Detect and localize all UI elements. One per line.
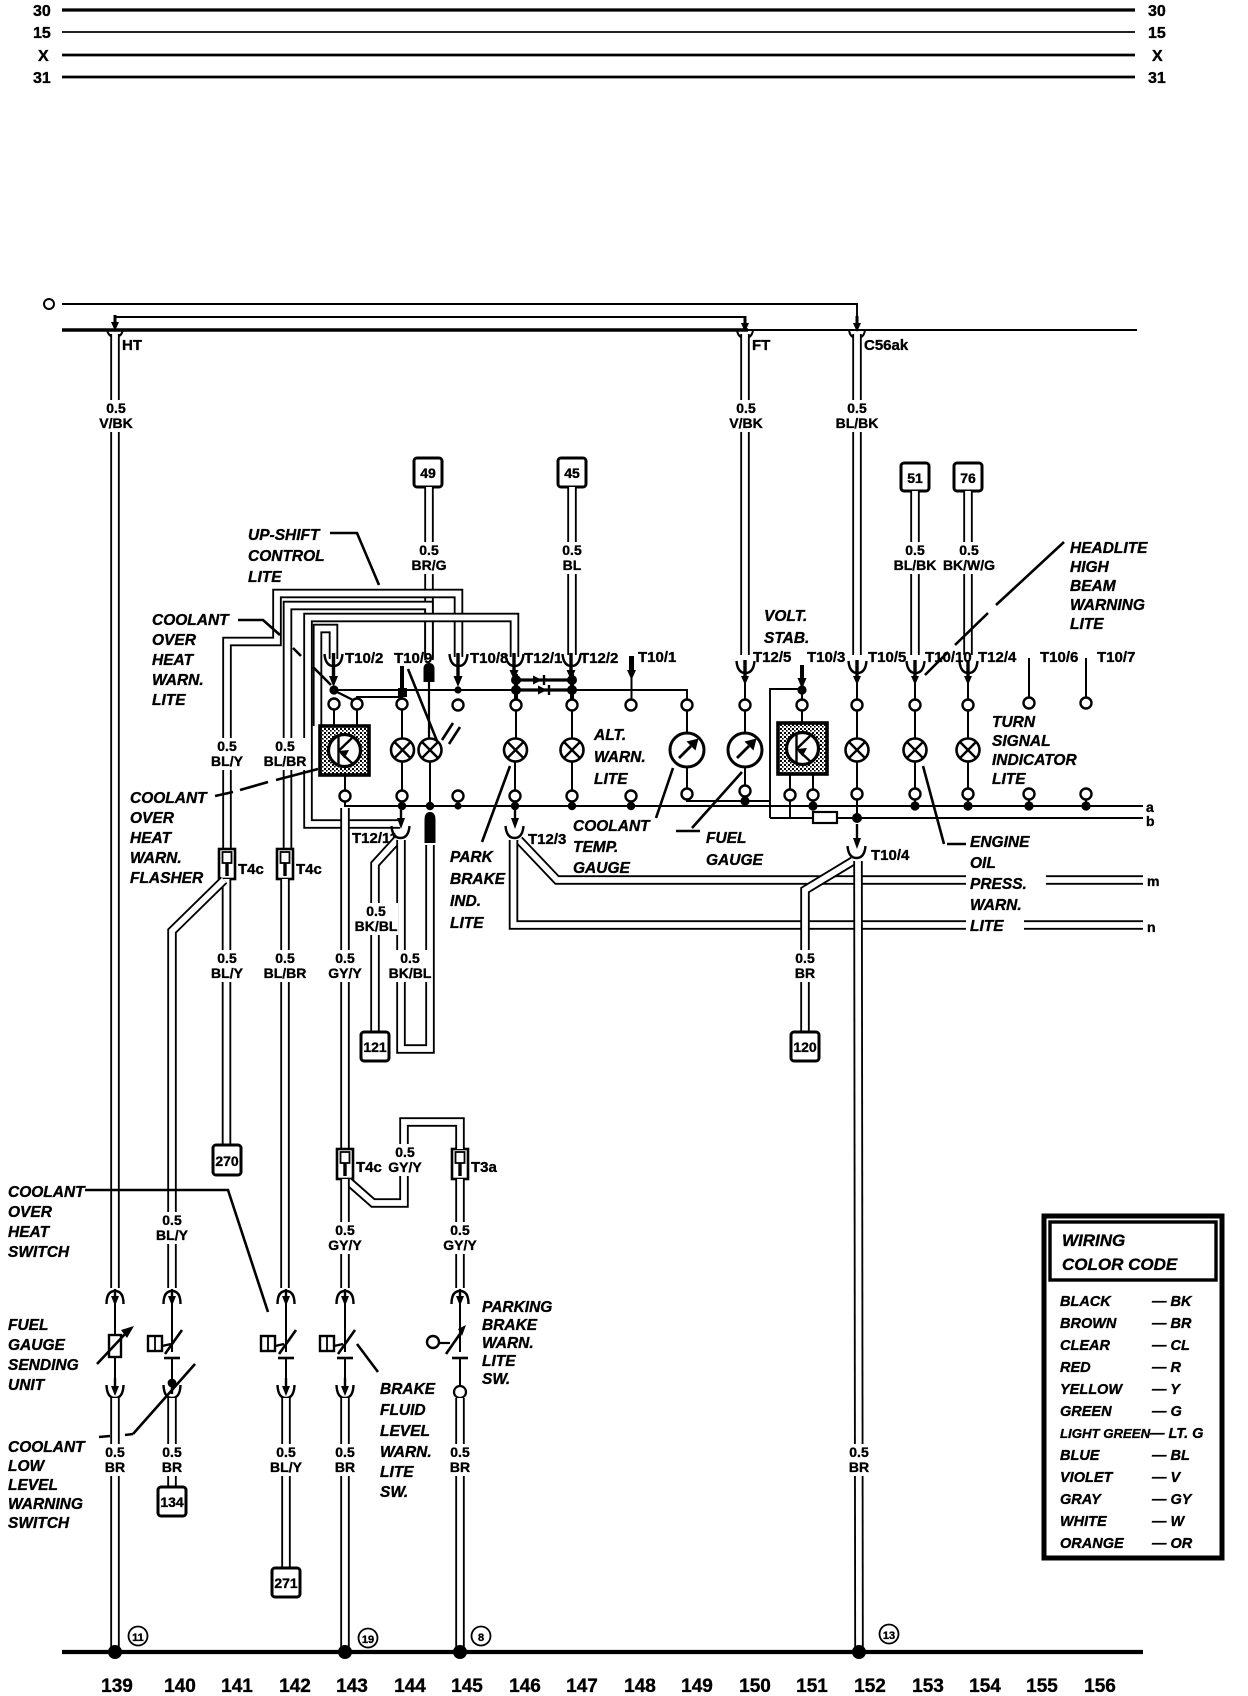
wire n from T12/3	[514, 840, 1144, 925]
wire label 0.5 GY/Y col460	[440, 1222, 481, 1254]
pointer coolant overheat flasher	[215, 769, 318, 796]
connector T12/1 cup	[506, 653, 524, 680]
pointer park brake ind lite	[482, 766, 510, 842]
connector box 134	[158, 1487, 186, 1516]
svg-text:OVER: OVER	[8, 1204, 53, 1221]
svg-text:LITE: LITE	[482, 1353, 516, 1370]
label coolant overheat flasher	[130, 790, 208, 887]
wire T10/9 stub	[400, 666, 404, 703]
bus 31	[62, 76, 1135, 79]
svg-text:— BK: — BK	[1151, 1294, 1193, 1310]
wire C56ak column BL/BK down to T10/5	[852, 334, 862, 655]
label T10/1	[638, 649, 676, 666]
svg-text:0.5: 0.5	[217, 950, 237, 966]
svg-text:V/BK: V/BK	[729, 415, 762, 431]
svg-text:— OR: — OR	[1151, 1536, 1193, 1552]
lamp upshift control	[419, 739, 442, 806]
label T10/5	[868, 649, 906, 666]
connector T10/4 cup	[848, 846, 866, 858]
wire T10/3 stub and link	[770, 665, 807, 818]
svg-text:149: 149	[681, 1676, 713, 1696]
wire T12/11 to box 121	[375, 840, 397, 1032]
svg-text:0.5: 0.5	[105, 1444, 125, 1460]
cluster bottom pins	[340, 786, 1092, 802]
svg-text:LITE: LITE	[594, 771, 628, 788]
svg-text:0.5: 0.5	[335, 1444, 355, 1460]
svg-text:143: 143	[336, 1676, 368, 1696]
arrow into T12/11	[397, 810, 405, 829]
svg-text:SW.: SW.	[380, 1484, 408, 1501]
svg-text:HEAT: HEAT	[152, 652, 195, 669]
svg-text:GAUGE: GAUGE	[706, 852, 764, 869]
wire label 0.5 BR col172	[155, 1444, 189, 1476]
svg-text:T3a: T3a	[471, 1159, 498, 1176]
resistor on rail b	[813, 812, 837, 823]
wire col2 BR to box 134	[167, 1398, 177, 1487]
svg-text:148: 148	[624, 1676, 656, 1696]
label T10/8	[470, 650, 508, 667]
ground id 19	[359, 1629, 378, 1648]
wire 45 BL down to T12/2	[567, 487, 577, 655]
svg-text:PARKING: PARKING	[482, 1299, 552, 1316]
svg-text:BK/BL: BK/BL	[389, 965, 432, 981]
svg-text:WARNING: WARNING	[1070, 597, 1145, 614]
svg-text:COOLANT: COOLANT	[130, 790, 208, 807]
pointer fuel gauge	[676, 772, 742, 831]
parking brake switch	[427, 1303, 468, 1386]
svg-text:BL/Y: BL/Y	[211, 965, 244, 981]
wire main horizontal thin segment	[748, 329, 1137, 331]
svg-text:153: 153	[912, 1676, 944, 1696]
ground id 8	[472, 1627, 491, 1646]
connector circle col5	[454, 1386, 466, 1398]
pointer headlite	[925, 542, 1064, 675]
svg-text:OIL: OIL	[970, 855, 996, 872]
voltstab box	[778, 723, 827, 774]
pointer coolant temp gauge	[656, 768, 673, 818]
svg-text:0.5: 0.5	[419, 542, 439, 558]
label T12/2	[580, 650, 618, 667]
wire T10/1 stub arrow	[627, 656, 636, 701]
svg-text:LOW: LOW	[8, 1458, 46, 1475]
svg-text:YELLOW: YELLOW	[1060, 1382, 1123, 1398]
svg-text:BR: BR	[849, 1459, 869, 1475]
svg-text:COOLANT: COOLANT	[573, 818, 651, 835]
svg-text:0.5: 0.5	[847, 400, 867, 416]
svg-text:SW.: SW.	[482, 1371, 510, 1388]
svg-text:— R: — R	[1151, 1360, 1182, 1376]
svg-text:WIRING: WIRING	[1062, 1231, 1125, 1250]
svg-text:COLOR CODE: COLOR CODE	[1062, 1255, 1178, 1274]
svg-text:WARNING: WARNING	[8, 1496, 83, 1513]
svg-text:CONTROL: CONTROL	[248, 548, 325, 565]
wire jumper rail to pin 357	[357, 697, 402, 699]
svg-text:VIOLET: VIOLET	[1060, 1470, 1114, 1486]
rail label b	[1146, 813, 1155, 829]
connector fork col3 top	[278, 1289, 295, 1352]
svg-text:SENDING: SENDING	[8, 1357, 79, 1374]
svg-text:LITE: LITE	[248, 569, 282, 586]
connector box 51	[901, 463, 929, 491]
svg-text:141: 141	[221, 1676, 253, 1696]
svg-text:13: 13	[883, 1630, 895, 1642]
svg-text:— W: — W	[1151, 1514, 1186, 1530]
junction dot T10/3	[797, 685, 806, 700]
svg-text:b: b	[1146, 813, 1155, 829]
svg-text:30: 30	[33, 3, 51, 20]
connector fork col5 top	[452, 1289, 469, 1306]
ground junction dots	[108, 1645, 866, 1659]
label T10/2	[345, 650, 383, 667]
svg-text:0.5: 0.5	[905, 542, 925, 558]
svg-text:0.5: 0.5	[736, 400, 756, 416]
svg-text:VOLT.: VOLT.	[764, 608, 807, 625]
svg-text:0.5: 0.5	[450, 1444, 470, 1460]
svg-text:TEMP.: TEMP.	[573, 839, 618, 856]
bus X label left	[38, 48, 49, 65]
svg-text:— G: — G	[1151, 1404, 1182, 1420]
svg-text:BL/BR: BL/BR	[264, 965, 307, 981]
wire T10/4 to box 120	[805, 861, 853, 1032]
pointer diagonal near T10/9	[408, 669, 437, 741]
connector box 76	[954, 463, 982, 491]
svg-text:GAUGE: GAUGE	[8, 1337, 66, 1354]
wire T12/2 pin link	[516, 674, 572, 700]
svg-text:FLASHER: FLASHER	[130, 870, 204, 887]
flasher relay box coolant overheat	[320, 726, 369, 775]
wire gauge bottom link rail	[687, 796, 770, 801]
label fuel gauge	[706, 830, 764, 869]
svg-text:SIGNAL: SIGNAL	[992, 733, 1051, 750]
svg-text:0.5: 0.5	[217, 738, 237, 754]
svg-text:BRAKE: BRAKE	[450, 871, 506, 888]
bus X label right	[1152, 48, 1163, 65]
label upshift control lite	[248, 527, 325, 586]
wiring color code box	[1044, 1216, 1222, 1558]
wire HT column V/BK down to fuel sender fork	[110, 334, 120, 1288]
svg-text:TURN: TURN	[992, 714, 1036, 731]
wire jog from T4c to coolant low level column	[172, 880, 224, 1288]
svg-text:142: 142	[279, 1676, 311, 1696]
connector box 270	[213, 1145, 241, 1175]
svg-text:134: 134	[160, 1494, 184, 1510]
wire main horizontal thick segment	[62, 328, 748, 331]
svg-text:HEADLITE: HEADLITE	[1070, 540, 1148, 557]
junction C56ak arrow and cup	[849, 316, 865, 338]
svg-text:GREEN: GREEN	[1060, 1404, 1112, 1420]
connector T10/8 cup	[450, 653, 468, 687]
gauge coolant temp	[670, 710, 704, 791]
connector fork col3 bottom	[278, 1378, 295, 1398]
label FT	[752, 337, 770, 354]
wire rail b	[770, 817, 1143, 819]
wire col1 BR to ground	[110, 1398, 120, 1650]
label T12/4	[978, 649, 1017, 666]
svg-text:T10/10: T10/10	[925, 649, 972, 666]
wire label 0.5 BL/Y left	[208, 738, 246, 770]
bullet T10/9 upshift wire end	[424, 663, 435, 739]
svg-text:WARN.: WARN.	[380, 1444, 432, 1461]
svg-text:BRAKE: BRAKE	[482, 1317, 538, 1334]
svg-text:HEAT: HEAT	[8, 1224, 51, 1241]
svg-text:51: 51	[907, 470, 923, 486]
svg-text:T12/4: T12/4	[978, 649, 1017, 666]
svg-text:BL: BL	[563, 557, 582, 573]
wire cluster bottom rail a	[345, 796, 1143, 806]
label HT	[122, 337, 142, 354]
svg-text:CLEAR: CLEAR	[1060, 1338, 1110, 1354]
connector T4c second inline	[277, 849, 293, 879]
junction FT arrow and cup	[737, 316, 753, 338]
svg-text:LITE: LITE	[450, 915, 484, 932]
svg-text:76: 76	[960, 470, 976, 486]
svg-text:T4c: T4c	[296, 861, 322, 878]
connector T12/4 cup	[960, 660, 978, 701]
svg-text:0.5: 0.5	[335, 950, 355, 966]
wire GY/Y from rail a down to T4c third	[340, 808, 350, 1149]
svg-text:X: X	[1152, 48, 1163, 65]
label coolant overheat warn lite	[152, 612, 230, 709]
svg-text:11: 11	[132, 1632, 144, 1644]
label headlite high beam warning lite	[1070, 540, 1148, 633]
svg-text:T10/7: T10/7	[1097, 649, 1135, 666]
label brake fluid level warn lite sw	[380, 1381, 436, 1501]
wire label 0.5 GY/Y col345 low	[325, 1222, 366, 1254]
node o terminal circle	[44, 299, 54, 309]
wire label 0.5 BK/W/G	[939, 542, 999, 574]
wire label 0.5 BL/BR col285	[263, 950, 308, 982]
connector T4c third inline	[337, 1149, 353, 1179]
svg-text:UP-SHIFT: UP-SHIFT	[248, 527, 321, 544]
lamp coolant overheat warn	[391, 708, 414, 791]
svg-text:BR: BR	[105, 1459, 125, 1475]
label T4c second	[296, 861, 322, 878]
junction dots rail a	[398, 801, 1091, 810]
optional marks at upshift lamp	[442, 723, 460, 744]
wire label 0.5 GY/Y col345	[325, 950, 366, 982]
svg-text:BR: BR	[335, 1459, 355, 1475]
svg-text:BK/W/G: BK/W/G	[943, 557, 995, 573]
wire label 0.5 BL/Y col172	[153, 1212, 191, 1244]
ground bus	[62, 1650, 1143, 1654]
svg-text:145: 145	[451, 1676, 483, 1696]
svg-text:FUEL: FUEL	[8, 1317, 48, 1334]
svg-text:WARN.: WARN.	[152, 672, 204, 689]
connector box 45	[558, 458, 586, 487]
label T10/6	[1040, 649, 1078, 666]
svg-text:INDICATOR: INDICATOR	[992, 752, 1077, 769]
label T10/9	[394, 650, 432, 667]
label T12/3	[528, 831, 566, 848]
svg-text:— CL: — CL	[1151, 1338, 1190, 1354]
label T10/7	[1097, 649, 1135, 666]
svg-text:T12/5: T12/5	[753, 649, 791, 666]
wire label 0.5 V/BK at HT	[97, 400, 135, 432]
label T12/11	[352, 830, 398, 847]
lamp turn signal indicator	[957, 708, 980, 791]
wire label 0.5 BK/BL upper	[355, 903, 398, 935]
bus 15	[62, 31, 1135, 33]
label coolant low level warning switch	[8, 1439, 86, 1532]
svg-text:0.5: 0.5	[562, 542, 582, 558]
connector fork col4 bottom	[337, 1378, 354, 1398]
svg-text:BRAKE: BRAKE	[380, 1381, 436, 1398]
connector box 49	[414, 458, 442, 487]
svg-text:0.5: 0.5	[275, 738, 295, 754]
svg-text:T10/5: T10/5	[868, 649, 906, 666]
svg-text:ENGINE: ENGINE	[970, 834, 1030, 851]
svg-text:BL/BK: BL/BK	[836, 415, 879, 431]
connector box 120	[791, 1032, 819, 1061]
svg-text:T10/8: T10/8	[470, 650, 508, 667]
junction dot T10/9	[398, 688, 407, 697]
svg-text:ALT.: ALT.	[593, 727, 626, 744]
svg-text:0.5: 0.5	[106, 400, 126, 416]
connector T3a inline	[452, 1149, 468, 1179]
svg-text:0.5: 0.5	[395, 1144, 415, 1160]
wire col3 BL/Y to box 271	[281, 1398, 291, 1568]
label T12/1	[524, 650, 562, 667]
svg-text:120: 120	[793, 1039, 817, 1055]
wire label 0.5 BR at 120	[788, 950, 822, 982]
svg-text:WARN.: WARN.	[130, 850, 182, 867]
svg-text:WHITE: WHITE	[1060, 1514, 1108, 1530]
rail label m	[1147, 873, 1159, 889]
svg-text:0.5: 0.5	[366, 903, 386, 919]
label parking brake warn lite sw	[482, 1299, 552, 1388]
svg-text:X: X	[38, 48, 49, 65]
svg-text:146: 146	[509, 1676, 541, 1696]
wire label 0.5 BL/Y col286	[267, 1444, 305, 1476]
svg-text:0.5: 0.5	[959, 542, 979, 558]
svg-text:LITE: LITE	[380, 1464, 414, 1481]
svg-text:0.5: 0.5	[162, 1212, 182, 1228]
svg-text:0.5: 0.5	[795, 950, 815, 966]
svg-text:SWITCH: SWITCH	[8, 1244, 70, 1261]
svg-text:— V: — V	[1151, 1470, 1182, 1486]
wire label 0.5 BR col115	[98, 1444, 132, 1476]
svg-text:STAB.: STAB.	[764, 630, 809, 647]
bus 30	[62, 8, 1135, 11]
svg-text:LEVEL: LEVEL	[380, 1423, 430, 1440]
svg-text:GAUGE: GAUGE	[573, 860, 631, 877]
wire HT to FT link line	[115, 317, 745, 329]
label C56ak	[864, 337, 909, 354]
svg-text:HEAT: HEAT	[130, 830, 173, 847]
svg-text:BLUE: BLUE	[1060, 1448, 1101, 1464]
svg-text:8: 8	[478, 1632, 484, 1644]
svg-text:T10/4: T10/4	[871, 847, 910, 864]
svg-text:151: 151	[796, 1676, 828, 1696]
svg-text:T10/6: T10/6	[1040, 649, 1078, 666]
wire m from T12/3	[519, 840, 1143, 880]
label T4c first	[238, 861, 264, 878]
svg-text:BL/Y: BL/Y	[270, 1459, 303, 1475]
wire BL/BR from T4c down to overheat switch	[280, 879, 290, 1288]
wire rail to T10/9 upshift feed	[288, 606, 430, 849]
wire label 0.5 GY/Y bridge	[385, 1144, 426, 1176]
svg-text:T4c: T4c	[238, 861, 264, 878]
label park brake ind lite	[450, 849, 506, 932]
svg-text:LITE: LITE	[1070, 616, 1104, 633]
svg-text:T10/3: T10/3	[807, 649, 845, 666]
pointer brake fluid	[357, 1344, 378, 1372]
svg-text:271: 271	[274, 1575, 298, 1591]
svg-text:BL/BK: BL/BK	[894, 557, 937, 573]
svg-text:T10/1: T10/1	[638, 649, 676, 666]
label alt warn lite	[593, 727, 646, 788]
ground id 13	[880, 1625, 899, 1644]
svg-text:155: 155	[1026, 1676, 1058, 1696]
svg-text:19: 19	[362, 1634, 374, 1646]
wire label 0.5 BL/Y col227	[208, 950, 246, 982]
wire T10/4 ground BR	[858, 861, 859, 1650]
connector T10/10 cup	[907, 660, 925, 701]
svg-text:270: 270	[215, 1153, 239, 1169]
wire T10/7 stub	[1085, 658, 1087, 699]
wire T10/6 stub	[1028, 658, 1030, 699]
wire 76 BK/W/G down to T12/4	[963, 491, 973, 655]
svg-text:156: 156	[1084, 1676, 1116, 1696]
lamp park brake indicator	[504, 708, 527, 791]
label coolant temp gauge	[573, 818, 651, 877]
cluster top pins	[329, 698, 1092, 711]
svg-text:OVER: OVER	[130, 810, 175, 827]
svg-text:FLUID: FLUID	[380, 1402, 426, 1419]
svg-text:HT: HT	[122, 337, 142, 354]
svg-text:0.5: 0.5	[276, 1444, 296, 1460]
pointer coolant low level	[99, 1364, 195, 1437]
svg-text:139: 139	[101, 1676, 133, 1696]
svg-text:— LT. G: — LT. G	[1149, 1426, 1203, 1442]
svg-text:147: 147	[566, 1676, 598, 1696]
lamp alternator warn	[561, 708, 584, 791]
svg-text:SWITCH: SWITCH	[8, 1515, 70, 1532]
svg-text:31: 31	[1148, 70, 1166, 87]
connector box 271	[272, 1568, 300, 1597]
wire 49 BR/G down to T10/9 bullet	[424, 487, 434, 660]
svg-text:15: 15	[1148, 25, 1166, 42]
svg-text:BL/Y: BL/Y	[211, 753, 244, 769]
junction dot T10/2	[329, 685, 353, 700]
label engine oil press warn lite	[966, 834, 1046, 935]
wire T3a down to parking switch	[455, 1179, 465, 1288]
wire T12/1 T12/2 jumper pair	[511, 675, 577, 695]
park brake thick wire bullet	[425, 812, 436, 843]
svg-text:BROWN: BROWN	[1060, 1316, 1117, 1332]
bus 30 label right	[1148, 3, 1166, 20]
label T4c third	[356, 1159, 382, 1176]
svg-text:LIGHT GREEN: LIGHT GREEN	[1060, 1426, 1151, 1441]
svg-text:150: 150	[739, 1676, 771, 1696]
svg-text:COOLANT: COOLANT	[152, 612, 230, 629]
pointer upshift	[330, 533, 379, 585]
label T3a	[471, 1159, 498, 1176]
svg-text:BEAM: BEAM	[1070, 578, 1117, 595]
svg-text:— GY: — GY	[1151, 1492, 1193, 1508]
connector fork col1 top	[107, 1289, 124, 1334]
svg-text:30: 30	[1148, 3, 1166, 20]
svg-text:15: 15	[33, 25, 51, 42]
svg-text:0.5: 0.5	[450, 1222, 470, 1238]
svg-text:GY/Y: GY/Y	[443, 1237, 477, 1253]
bus 31 label left	[33, 70, 51, 87]
wire FT column V/BK down to T12/5	[740, 334, 750, 655]
connector T10/5 cup	[849, 660, 867, 701]
rail label n	[1147, 919, 1156, 935]
coolant overheat switch	[261, 1330, 296, 1388]
wire label 0.5 BL/BK at C56ak	[835, 400, 880, 432]
